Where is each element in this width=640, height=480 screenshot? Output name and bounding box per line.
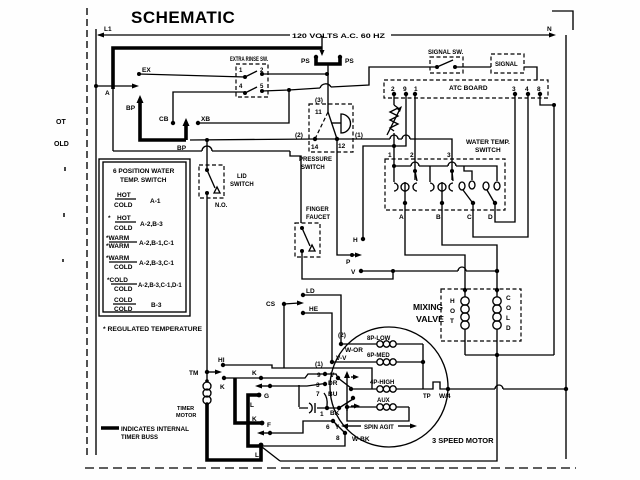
svg-text:TIMER BUSS: TIMER BUSS [121,435,158,441]
svg-text:G: G [264,393,269,400]
svg-text:9: 9 [317,372,321,379]
svg-text:*WARM: *WARM [106,235,129,242]
svg-text:COLD: COLD [114,286,133,293]
svg-text:N: N [547,26,552,33]
svg-text:(2): (2) [338,332,346,339]
svg-text:A: A [399,214,404,221]
svg-text:14: 14 [311,144,319,151]
svg-text:O: O [450,308,455,315]
svg-text:V: V [351,269,356,276]
svg-text:N.O.: N.O. [215,203,228,209]
svg-text:VALVE: VALVE [416,314,444,324]
svg-text:(2): (2) [295,132,303,139]
svg-text:*WARM: *WARM [106,243,129,250]
svg-text:4P-HIGH: 4P-HIGH [370,380,394,386]
svg-text:SWITCH: SWITCH [475,147,501,154]
svg-text:*COLD: *COLD [107,277,128,284]
svg-text:AUX: AUX [377,398,390,404]
svg-text:PRESSURE: PRESSURE [299,157,332,163]
svg-text:6P-MED: 6P-MED [367,353,390,359]
svg-text:XB: XB [201,116,210,123]
svg-text:OLD: OLD [54,141,69,148]
svg-text:COLD: COLD [114,297,133,304]
svg-text:COLD: COLD [114,264,133,271]
svg-text:C: C [506,295,511,302]
svg-text:COLD: COLD [114,202,133,209]
svg-text:A-2,B-3: A-2,B-3 [140,221,163,228]
svg-text:K: K [220,384,225,391]
svg-text:A-2,B-1,C-1: A-2,B-1,C-1 [139,240,174,247]
svg-text:INDICATES INTERNAL: INDICATES INTERNAL [121,427,189,433]
svg-text:L: L [506,315,510,322]
svg-text:MIXING: MIXING [413,302,443,312]
svg-text:F: F [267,422,271,429]
svg-text:11: 11 [315,109,322,116]
svg-text:TIMER: TIMER [177,406,194,412]
svg-text:LD: LD [306,288,315,295]
svg-text:K: K [252,370,257,377]
svg-text:H: H [353,237,358,244]
svg-text:EXTRA RINSE SW.: EXTRA RINSE SW. [230,57,268,63]
svg-text:C: C [467,214,472,221]
svg-text:H: H [450,298,455,305]
svg-text:8: 8 [336,435,340,442]
svg-text:SPIN AGIT: SPIN AGIT [364,425,394,431]
svg-text:BK: BK [330,410,340,417]
svg-text:V-V: V-V [336,355,347,362]
svg-text:HE: HE [309,306,319,313]
svg-text:CB: CB [159,116,169,123]
svg-text:COLD: COLD [114,306,133,313]
svg-text:T: T [450,318,454,325]
svg-text:PS: PS [345,58,354,65]
svg-text:K: K [252,416,257,423]
svg-text:*WARM: *WARM [106,255,129,262]
svg-text:* REGULATED TEMPERATURE: * REGULATED TEMPERATURE [103,326,203,333]
svg-text:L: L [255,452,259,459]
svg-text:A-2,B-3,C-1: A-2,B-3,C-1 [139,260,174,267]
svg-text:D: D [488,214,493,221]
svg-text:3: 3 [447,152,451,159]
svg-text:TP: TP [423,394,431,400]
svg-text:PS: PS [301,58,310,65]
svg-text:BP: BP [126,105,136,112]
svg-text:FAUCET: FAUCET [306,215,330,221]
svg-text:1: 1 [388,152,392,159]
svg-text:SCHEMATIC: SCHEMATIC [131,8,235,27]
svg-text:OT: OT [56,119,66,126]
svg-text:MOTOR: MOTOR [176,413,196,419]
svg-text:P: P [346,259,351,266]
svg-text:FINGER: FINGER [306,207,329,213]
svg-text:7: 7 [316,391,320,398]
svg-text:SWITCH: SWITCH [230,182,254,188]
svg-text:(3): (3) [315,97,323,104]
svg-text:V: V [330,372,335,379]
svg-text:HOT: HOT [117,215,131,222]
svg-text:D: D [506,325,511,332]
svg-text:O: O [506,305,511,312]
svg-text:6 POSITION WATER: 6 POSITION WATER [113,168,175,175]
svg-text:COLD: COLD [114,225,133,232]
svg-text:SWITCH: SWITCH [301,165,325,171]
svg-text:TM: TM [189,370,198,377]
svg-text:(1): (1) [355,132,363,139]
svg-text:HOT: HOT [117,192,131,199]
svg-text:TEMP. SWITCH: TEMP. SWITCH [120,177,167,184]
svg-text:3 SPEED MOTOR: 3 SPEED MOTOR [432,436,494,445]
svg-text:2: 2 [410,152,414,159]
svg-text:A-1: A-1 [150,198,161,205]
svg-text:120 VOLTS A.C. 60 HZ: 120 VOLTS A.C. 60 HZ [292,34,385,40]
svg-text:L1: L1 [104,26,112,33]
svg-text:W-BK: W-BK [352,436,370,443]
svg-text:DR: DR [328,380,338,387]
svg-text:6: 6 [326,424,330,431]
svg-text:EX: EX [142,67,151,74]
svg-text:3: 3 [316,382,320,389]
svg-text:WATER TEMP.: WATER TEMP. [466,139,510,146]
svg-text:12: 12 [338,143,346,150]
svg-text:ATC BOARD: ATC BOARD [449,85,488,92]
svg-text:LID: LID [237,174,247,180]
svg-text:1: 1 [320,411,324,418]
svg-text:A: A [105,90,110,97]
svg-text:B-3: B-3 [151,302,162,309]
svg-text:B: B [436,214,441,221]
svg-text:L: L [250,402,254,409]
svg-text:CS: CS [266,301,276,308]
svg-text:SIGNAL: SIGNAL [495,62,518,68]
svg-text:SIGNAL SW.: SIGNAL SW. [428,50,464,56]
svg-text:W/4: W/4 [439,393,451,400]
svg-text:BU: BU [328,391,338,398]
svg-text:A-2,B-3,C-1,D-1: A-2,B-3,C-1,D-1 [138,283,182,289]
svg-text:(1): (1) [315,361,323,368]
svg-text:W-OR: W-OR [345,347,363,354]
